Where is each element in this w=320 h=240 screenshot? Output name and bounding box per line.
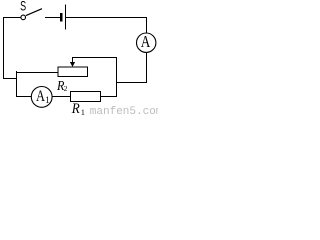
wire bus vertical (node R) [116, 57, 118, 97]
ammeter A circle [137, 33, 156, 52]
wire top-left horizontal to switch [3, 17, 21, 19]
wire rail to R2 left terminal [16, 72, 59, 74]
wire A lower vertical [146, 52, 148, 83]
switch S blade (open) [26, 9, 42, 16]
battery positive long plate [65, 5, 67, 30]
wire A branch horizontal [116, 82, 147, 84]
wire R1 right to bus [101, 96, 118, 98]
wire feed horizontal to junction [3, 78, 17, 80]
wire A upper vertical [146, 17, 148, 33]
svg-text:manfen5.com: manfen5.com [90, 106, 158, 117]
switch S pivot circle [21, 15, 26, 20]
svg-text:R: R [71, 101, 80, 117]
label R1 [71, 101, 85, 117]
svg-text:A: A [141, 32, 151, 51]
wire junction vertical (node L) [16, 71, 18, 97]
resistor R1 body [71, 92, 101, 102]
svg-text:S: S [20, 0, 26, 14]
wire ammeter A1 right to R1 left [52, 96, 70, 98]
wire rail to ammeter A1 left [16, 96, 31, 98]
rheostat R2 wiper arrowhead [70, 62, 75, 67]
rheostat R2 wiper stem [72, 57, 74, 63]
rheostat R2 body [58, 67, 88, 76]
label R2 [56, 79, 67, 94]
wire wiper top horizontal [73, 57, 118, 59]
svg-text:1: 1 [81, 108, 85, 117]
wire switch to battery [45, 17, 60, 19]
wire left vertical [3, 17, 5, 79]
svg-text:2: 2 [64, 84, 68, 93]
ammeter A1 circle [31, 87, 52, 108]
battery negative short plate [60, 13, 62, 22]
ammeter A1 letters [36, 88, 50, 105]
wire battery to top-right corner [66, 17, 147, 19]
svg-text:A: A [36, 88, 46, 105]
svg-text:1: 1 [45, 95, 50, 105]
